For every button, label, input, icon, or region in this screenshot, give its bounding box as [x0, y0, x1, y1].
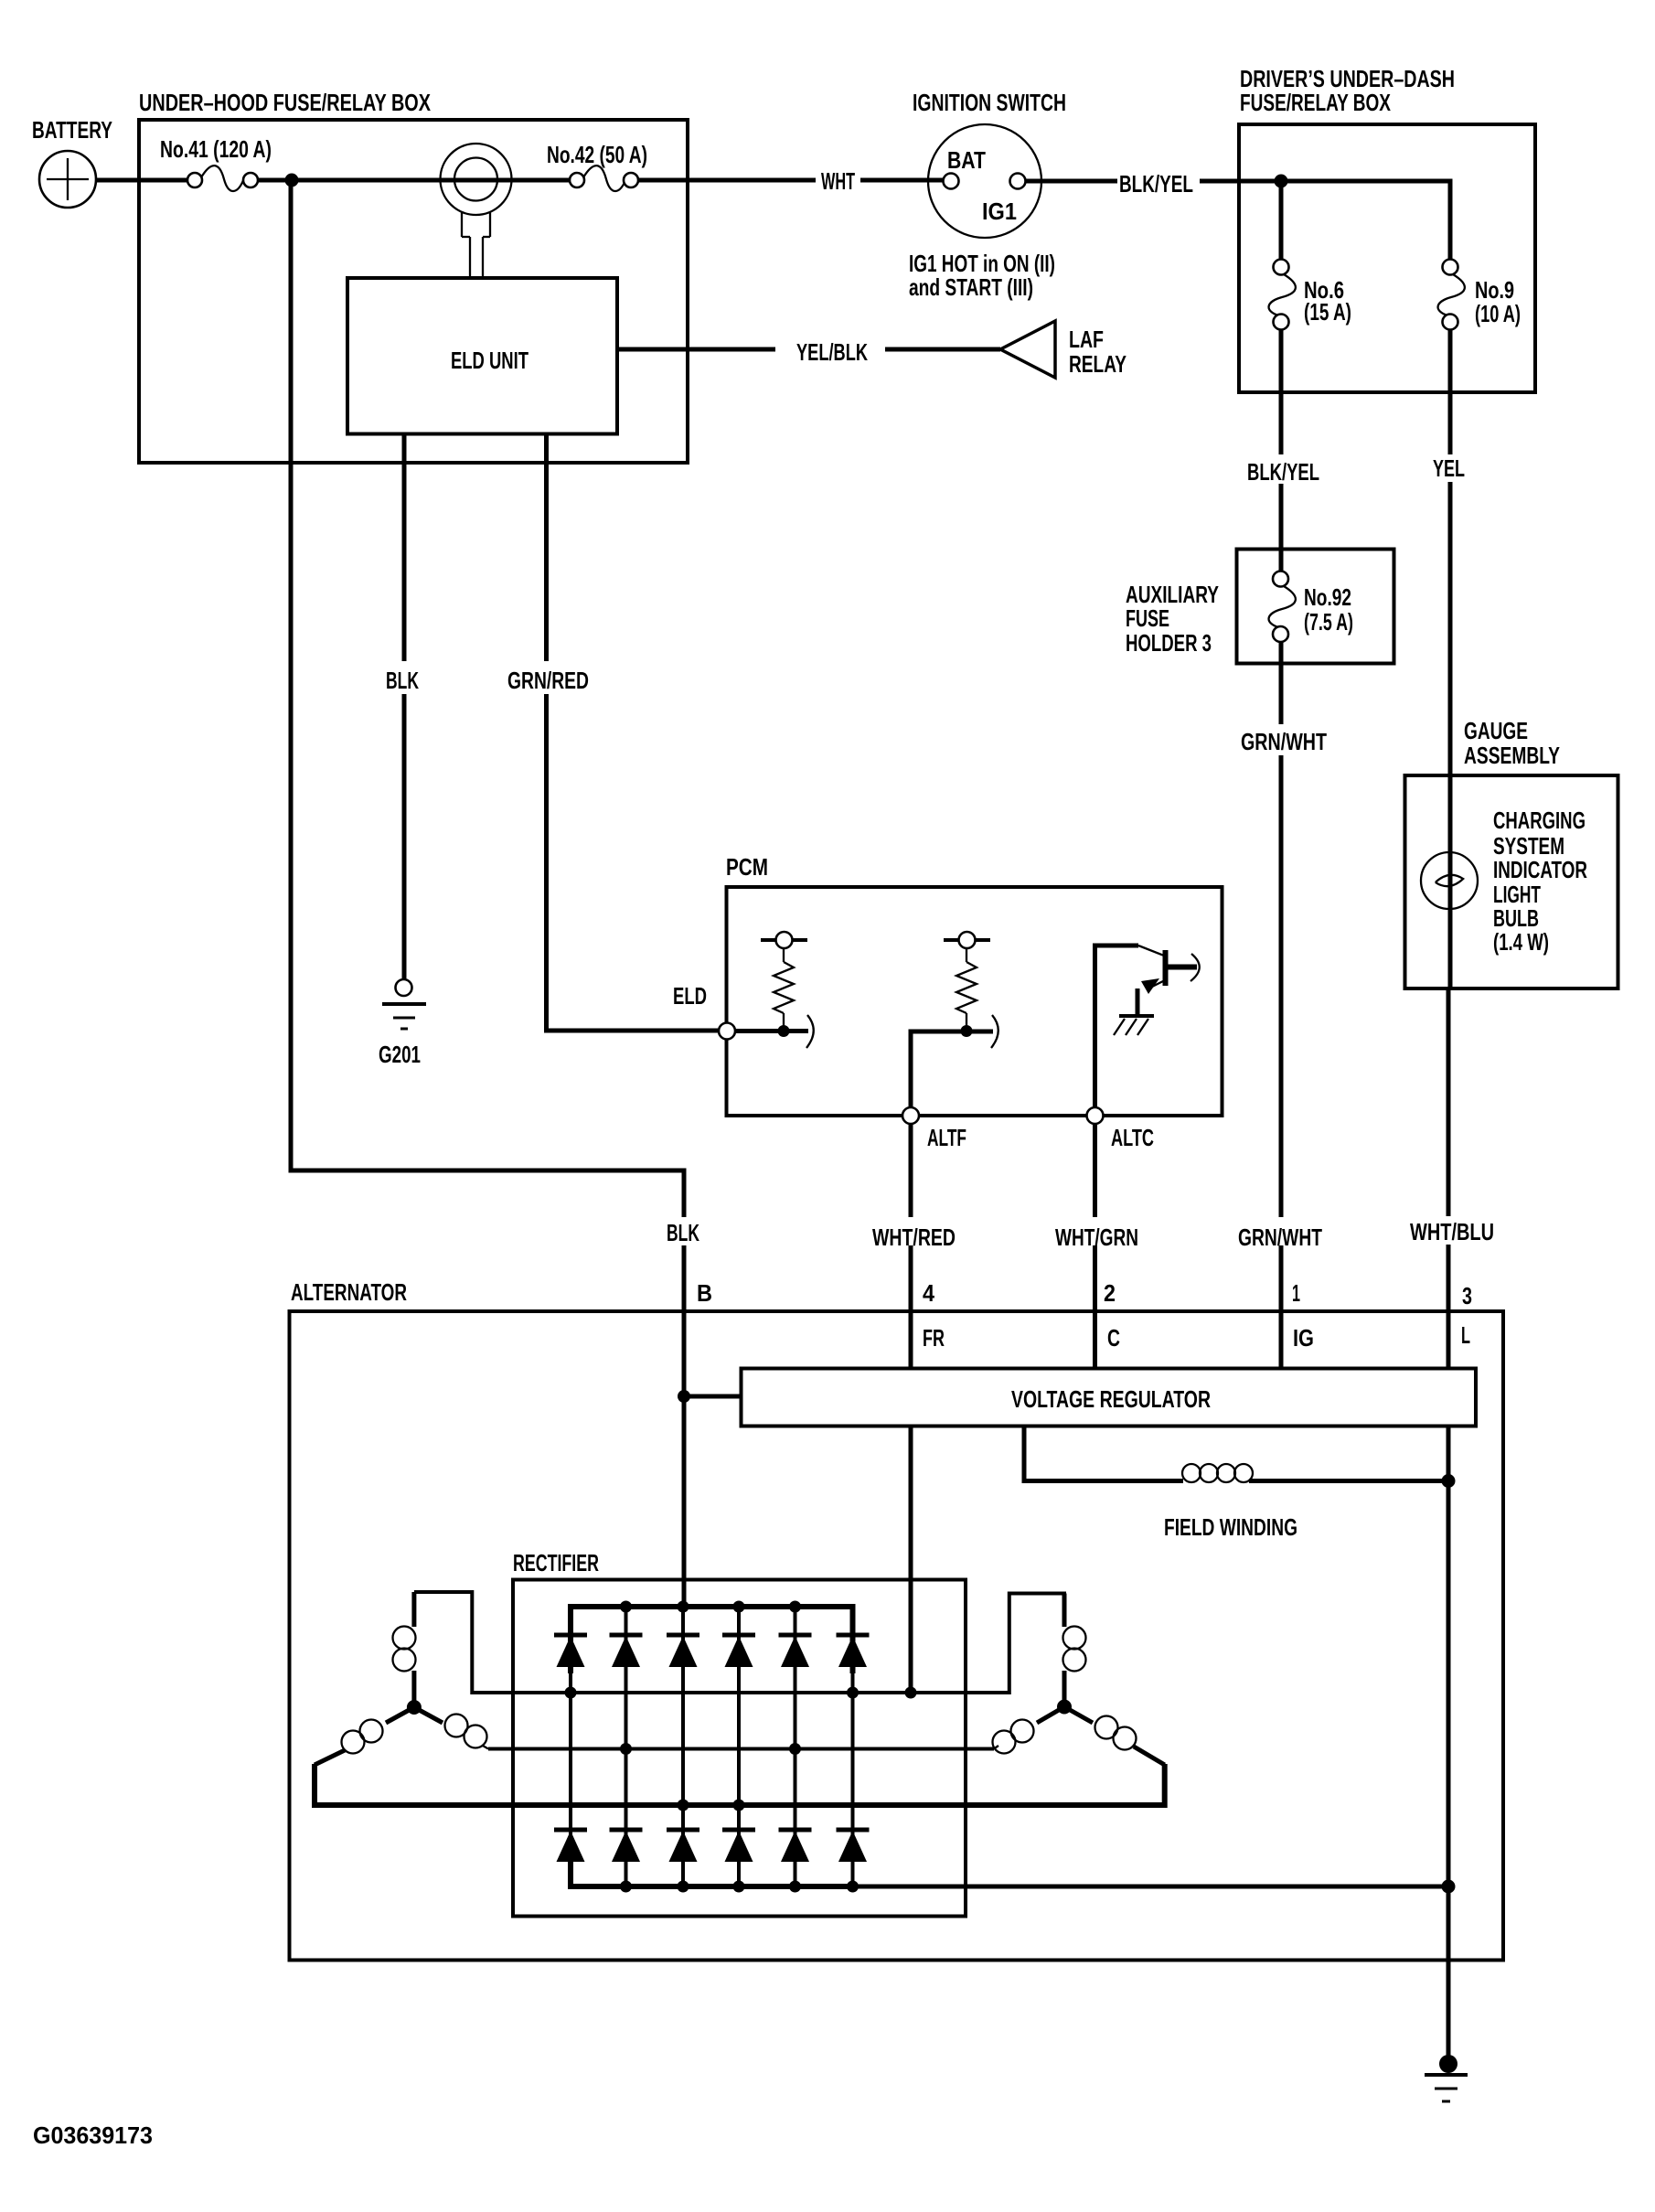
gauge assembly box [1405, 775, 1618, 988]
svg-text:FUSE/RELAY BOX: FUSE/RELAY BOX [1240, 89, 1391, 116]
svg-text:YEL: YEL [1433, 454, 1465, 482]
ELD unit box [347, 278, 617, 434]
junction battery node [285, 174, 299, 187]
svg-text:VOLTAGE REGULATOR: VOLTAGE REGULATOR [1011, 1385, 1211, 1413]
svg-text:No.92: No.92 [1304, 583, 1351, 611]
svg-text:YEL/BLK: YEL/BLK [796, 338, 868, 366]
svg-text:INDICATOR: INDICATOR [1493, 856, 1587, 883]
auxiliary fuse holder 3 box [1237, 550, 1394, 664]
svg-text:(1.4 W): (1.4 W) [1493, 928, 1549, 956]
svg-text:(10 A): (10 A) [1475, 300, 1521, 327]
wire junction to fuse No.42 (through ELD sensor ring) [272, 178, 571, 183]
svg-text:1: 1 [1292, 1279, 1300, 1307]
stator phase line 3 [315, 1764, 1165, 1805]
svg-text:ALTF: ALTF [927, 1124, 966, 1151]
ELD current sensor ring [423, 144, 529, 278]
wire WHT/BLU label to alternator pin 3 and regulator L [1447, 1245, 1451, 1368]
ground G201 [382, 979, 426, 1029]
diode column 3 (B line) [681, 1607, 685, 1886]
wire ELD unit BLK output down to G201 [402, 433, 407, 661]
junction R2 to ALTF line [961, 1025, 973, 1037]
svg-text:FIELD WINDING: FIELD WINDING [1164, 1513, 1297, 1541]
svg-text:IGNITION SWITCH: IGNITION SWITCH [913, 89, 1066, 116]
svg-text:WHT/BLU: WHT/BLU [1410, 1218, 1494, 1245]
left stator winding L2 [414, 1707, 488, 1749]
svg-text:(7.5 A): (7.5 A) [1304, 608, 1353, 636]
wire pin B tap to voltage regulator [684, 1395, 742, 1399]
left stator Y junction [407, 1700, 422, 1715]
wire fuse No.6 down to BLK/YEL label [1279, 328, 1284, 454]
PCM pin ELD [719, 1023, 735, 1040]
fuse No.41 (120 A) [187, 166, 258, 191]
svg-text:GRN/RED: GRN/RED [507, 667, 589, 694]
driver's under-dash fuse/relay box [1239, 124, 1535, 392]
junction driver's box node [1275, 175, 1288, 188]
wire BLK label to alternator pin B down to rectifier top bus [682, 1245, 687, 1609]
wire junction to fuse No.9 corner [1281, 181, 1450, 261]
wire field winding from regulator [1024, 1427, 1183, 1481]
wire GRN/RED label down and right to PCM ELD pin [547, 694, 721, 1031]
svg-text:WHT/RED: WHT/RED [872, 1224, 956, 1251]
svg-text:BAT: BAT [947, 146, 986, 174]
left stator winding L1 [393, 1592, 416, 1707]
fuse No.6 (15 A) [1269, 260, 1296, 330]
diode column 5 [794, 1607, 797, 1886]
wire regulator L output down to alternator ground [1447, 1427, 1451, 2059]
voltage regulator U1 box [742, 1369, 1477, 1427]
svg-text:WHT: WHT [821, 167, 855, 195]
svg-text:G03639173: G03639173 [33, 2121, 153, 2149]
PCM R1 output line with connector arc [727, 1015, 814, 1048]
svg-text:ALTC: ALTC [1111, 1124, 1154, 1151]
svg-text:4: 4 [923, 1279, 934, 1307]
junction bottom bus to L line [1442, 1880, 1456, 1894]
svg-text:UNDER–HOOD FUSE/RELAY BOX: UNDER–HOOD FUSE/RELAY BOX [139, 89, 431, 116]
junction phase 1 dots [565, 1687, 917, 1699]
diode column 6 [851, 1607, 855, 1886]
svg-text:G201: G201 [379, 1041, 421, 1068]
left stator winding L3 [315, 1707, 414, 1765]
junction B to regulator tap [678, 1390, 690, 1403]
wire BLK/YEL label into driver's box to junction [1200, 179, 1281, 184]
stator phase line 2 [488, 1747, 994, 1751]
field winding coil [1182, 1464, 1253, 1482]
svg-text:No.41 (120 A): No.41 (120 A) [160, 135, 272, 163]
svg-text:ELD: ELD [673, 982, 707, 1010]
under-hood fuse/relay box [139, 120, 688, 463]
fuse No.92 (7.5 A) [1269, 572, 1296, 643]
junction field winding to L line [1442, 1474, 1456, 1488]
svg-text:ASSEMBLY: ASSEMBLY [1464, 742, 1560, 769]
fuse No.42 (50 A) [570, 166, 638, 191]
wire ELD unit to YEL/BLK label [617, 347, 775, 352]
PCM pull-up resistor R1 [761, 932, 807, 1031]
PCM pull-up resistor R2 [944, 932, 990, 1031]
junction bottom bus dots [620, 1881, 859, 1893]
svg-text:FUSE: FUSE [1126, 604, 1169, 632]
wire junction down to fuse No.6 [1279, 181, 1284, 261]
rectifier upper diodes D1-D6 [554, 1635, 587, 1667]
LAF relay [1000, 321, 1055, 378]
diode column 1 [569, 1628, 572, 1886]
wire fuse No.9 down to YEL label [1448, 328, 1453, 454]
wire fuse No.42 to WHT label [637, 178, 816, 183]
wire battery to fuse No.41 [95, 178, 188, 183]
rectifier lower diodes D7-D12 [554, 1830, 587, 1862]
rectifier box [513, 1580, 966, 1917]
stator phase line 1 [414, 1592, 1064, 1693]
ignition switch SW1 [928, 124, 1041, 238]
junction phase 3 dots [678, 1800, 745, 1811]
wire field winding to L line junction [1249, 1479, 1448, 1483]
right stator winding L6 [1064, 1707, 1165, 1766]
wire ELD unit GRN/RED output down [544, 433, 549, 661]
wire YEL label down through bulb to gauge box bottom [1448, 482, 1453, 988]
svg-text:IG: IG [1293, 1324, 1314, 1352]
wire ignition IG1 terminal to BLK/YEL label [1025, 179, 1117, 184]
PCM pin ALTC [1087, 1107, 1104, 1124]
svg-text:PCM: PCM [726, 853, 768, 881]
PCM pin ALTF [902, 1107, 919, 1124]
svg-text:BLK: BLK [667, 1219, 699, 1246]
fuse No.9 (10 A) [1438, 260, 1465, 330]
junction phase 2 dots [620, 1743, 801, 1755]
svg-text:L: L [1461, 1321, 1470, 1349]
svg-text:GRN/WHT: GRN/WHT [1238, 1224, 1322, 1251]
junction R1 to ELD line [778, 1025, 790, 1037]
svg-text:ALTERNATOR: ALTERNATOR [291, 1278, 407, 1306]
diode column 2 [625, 1607, 628, 1886]
wire fuse No.41 to junction [257, 178, 311, 183]
svg-text:B: B [697, 1279, 712, 1307]
wire GRN/WHT label down to lower GRN/WHT label [1279, 755, 1284, 1217]
wire BLK label to ground G201 [402, 694, 407, 979]
rectifier bottom bus [571, 1856, 853, 1886]
svg-text:ELD UNIT: ELD UNIT [451, 347, 529, 374]
diode column 4 [737, 1607, 741, 1886]
wire WHT/GRN label to alternator pin 2 and regulator C [1093, 1245, 1097, 1368]
wire rectifier bottom bus to L line [850, 1885, 1448, 1889]
wire lower GRN/WHT label to alternator pin 1 and regulator IG [1279, 1245, 1284, 1368]
wire gauge assembly to WHT/BLU label [1447, 988, 1451, 1216]
svg-text:and START (III): and START (III) [909, 273, 1033, 301]
svg-text:(15 A): (15 A) [1304, 298, 1351, 326]
svg-text:2: 2 [1104, 1279, 1116, 1307]
wire regulator FR down to rectifier phase node [909, 1427, 913, 1693]
svg-text:LAF: LAF [1069, 326, 1104, 353]
svg-text:BATTERY: BATTERY [32, 116, 112, 144]
svg-text:3: 3 [1462, 1282, 1472, 1309]
right stator winding L5 [993, 1707, 1065, 1754]
svg-text:No.42 (50 A): No.42 (50 A) [547, 141, 647, 168]
wire BLK/YEL label to aux fuse No.92 [1279, 484, 1284, 572]
PCM box [727, 887, 1223, 1116]
PCM transistor Q1 [1095, 946, 1200, 1116]
svg-text:C: C [1107, 1324, 1120, 1352]
svg-text:RELAY: RELAY [1069, 350, 1126, 378]
svg-text:BLK: BLK [386, 667, 419, 694]
charging system indicator light bulb (1.4 W) [1421, 852, 1478, 909]
transistor emitter ground [1114, 1016, 1154, 1035]
svg-text:FR: FR [923, 1324, 945, 1352]
svg-text:BLK/YEL: BLK/YEL [1247, 458, 1319, 486]
alternator case ground [1425, 2055, 1468, 2101]
svg-text:IG1: IG1 [982, 198, 1017, 225]
wire WHT label to ignition BAT terminal [860, 178, 944, 183]
svg-text:GAUGE: GAUGE [1464, 717, 1528, 744]
svg-text:WHT/GRN: WHT/GRN [1055, 1224, 1138, 1251]
svg-text:HOLDER 3: HOLDER 3 [1126, 629, 1212, 657]
PCM R2 output line to ALTF with connector arc [911, 1015, 998, 1116]
svg-text:BLK/YEL: BLK/YEL [1119, 170, 1193, 198]
alternator box [290, 1311, 1504, 1961]
wire fuse No.92 down to GRN/WHT label [1279, 640, 1284, 724]
right stator winding L4 [1063, 1594, 1086, 1707]
wire YEL/BLK label to LAF relay [885, 347, 1000, 352]
battery BT1 [39, 151, 96, 208]
svg-text:RECTIFIER: RECTIFIER [513, 1549, 599, 1576]
svg-text:CHARGING: CHARGING [1493, 807, 1586, 834]
wire WHT/RED label to alternator pin 4 and regulator FR [909, 1245, 913, 1368]
svg-text:GRN/WHT: GRN/WHT [1241, 728, 1327, 755]
wire PCM ALTC pin down to WHT/GRN label [1093, 1124, 1097, 1217]
wire battery junction down left side [291, 180, 684, 1217]
right stator Y junction [1057, 1700, 1072, 1715]
rectifier top bus [571, 1607, 853, 1673]
wire PCM ALTF pin down to WHT/RED label [909, 1124, 913, 1217]
junction top bus dots [620, 1601, 801, 1613]
